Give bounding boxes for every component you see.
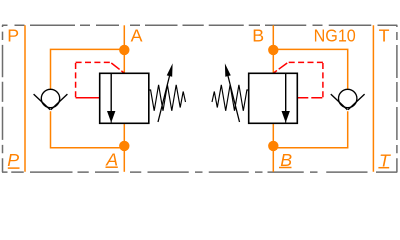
svg-text:A: A [105, 149, 118, 169]
svg-text:NG10: NG10 [314, 25, 356, 45]
svg-text:A: A [131, 25, 143, 45]
svg-text:P: P [7, 150, 19, 170]
svg-text:T: T [379, 25, 390, 45]
svg-text:P: P [7, 25, 19, 45]
svg-text:B: B [252, 25, 264, 45]
